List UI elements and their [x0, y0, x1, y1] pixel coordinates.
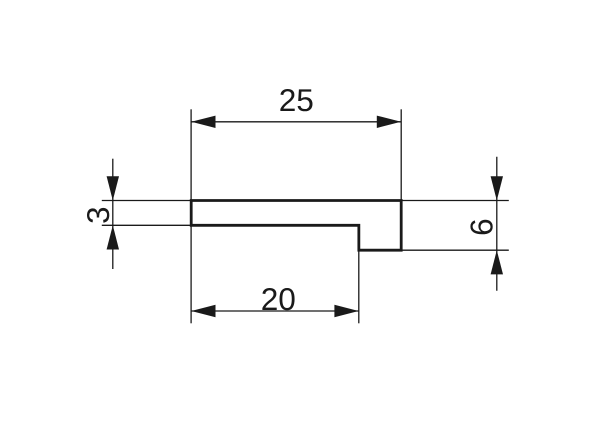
- extension line left of dimension 20: [190, 225, 192, 323]
- dimension line 25: [191, 121, 401, 123]
- extension line top of dimension 3: [102, 200, 191, 202]
- dimension text 20: [262, 288, 294, 310]
- dimension text 6 (rotated): [470, 220, 492, 235]
- arrowhead top of dimension 3 (pointing down): [107, 176, 119, 200]
- arrowhead right of dimension 20: [334, 305, 358, 317]
- arrowhead left of dimension 25: [191, 116, 215, 128]
- arrowhead right of dimension 25: [377, 116, 401, 128]
- extension line right of dimension 20 (below step): [358, 250, 360, 323]
- extension line left of dimension 25: [190, 109, 192, 200]
- arrowhead bottom of dimension 6 (pointing up): [491, 250, 503, 274]
- arrowhead left of dimension 20: [191, 305, 215, 317]
- arrowhead top of dimension 6 (pointing down): [491, 176, 503, 200]
- extension line right of dimension 25: [400, 109, 402, 200]
- dimension text 25: [280, 89, 312, 111]
- profile outline (L-shaped step bar): [191, 201, 401, 251]
- dimension line 3 (vertical): [112, 159, 114, 269]
- extension line bottom of dimension 3: [102, 224, 191, 226]
- dimension line 20: [191, 310, 359, 312]
- dimension text 3 (rotated): [87, 208, 109, 223]
- extension line top of dimension 6: [401, 200, 509, 202]
- arrowhead bottom of dimension 3 (pointing up): [107, 225, 119, 249]
- dimension line 6 (vertical): [496, 157, 498, 291]
- extension line bottom of dimension 6: [401, 249, 509, 251]
